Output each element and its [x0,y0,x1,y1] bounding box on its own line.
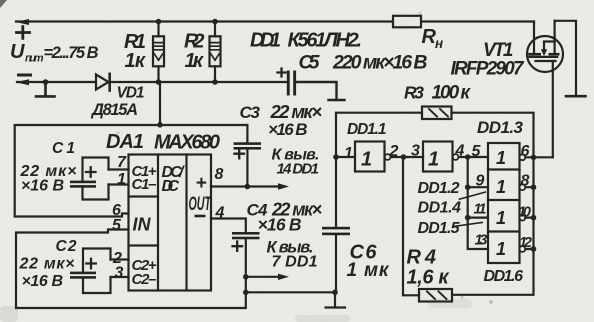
op-amp U1 chip DA1 MAX680 body [129,155,212,291]
resistor R3 [336,112,422,114]
wire source to ground [555,21,576,95]
capacitor C3 [246,125,248,142]
wire IN supply line and frame to pin 6 [15,125,248,217]
node plus terminal arrow [16,19,30,25]
wire pointer DD1.4 [460,192,486,199]
wire rail drop to IN line [159,82,161,125]
resistor R4 [419,289,452,302]
gate column DD1.3 DD1.4 DD1.5 DD1.6 [488,143,520,263]
pin 7 stub [109,168,129,170]
capacitor C1 loop [83,158,109,200]
transistor VT1 MOSFET [527,36,563,72]
diode VD1 [96,75,109,90]
wire top positive rail [16,20,534,22]
pin 3 stub [111,276,129,278]
node plus sign [17,27,30,39]
wire output bus pins 6 8 10 12 [525,157,552,249]
gate DD1.2 second inverter [423,142,453,172]
wire bottom common line [246,291,335,293]
wire arrow to pin 7 DD1 [246,276,282,278]
wire gate riser [552,61,554,157]
paper grain [0,0,1,1]
gate DD1.1 [336,156,355,158]
wire pointer DD1.5 [454,222,482,226]
ground common 2 [566,95,586,98]
capacitor C6 [335,113,337,227]
capacitor C2 loop [83,249,111,294]
pin 2 stub [111,258,129,260]
capacitor C5 [287,71,290,96]
wire pin5 ground frame around C2 [16,230,246,309]
wire input bus pins 9 11 13 [468,157,488,249]
wire pin 4 output [211,219,246,233]
node minus sign [19,74,31,77]
resistor R1 [153,36,164,66]
wire pin 8 output [211,185,282,187]
node minus terminal arrow [16,79,30,85]
capacitor C4 [232,232,260,235]
resistor Rn load [393,16,421,27]
ground common 1 [43,79,49,85]
wire C5 right lead to common [296,82,344,100]
resistor R2 [210,36,221,66]
wire minus rail [17,81,288,83]
pin 1 stub [109,183,129,185]
